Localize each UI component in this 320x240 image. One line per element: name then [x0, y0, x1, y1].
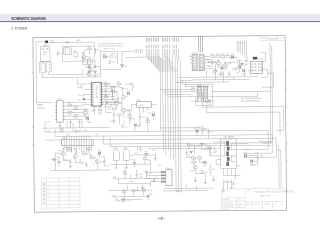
transistor Q31: [190, 166, 197, 173]
resistor R27: [213, 70, 217, 75]
diode D22: [241, 64, 248, 67]
svg-text:CX: CX: [59, 53, 62, 55]
resistor R51: [191, 87, 195, 90]
wire runs below CN02 to T01: [163, 185, 213, 191]
resistor R43: [82, 151, 86, 155]
svg-text:D02: D02: [97, 67, 100, 69]
svg-text:Q11: Q11: [84, 109, 87, 111]
svg-text:MAIN: MAIN: [37, 104, 43, 107]
resistor R38: [104, 94, 108, 97]
svg-text:SCALE: SCALE: [223, 208, 230, 211]
capacitor C59 below T01: [233, 182, 235, 186]
AC inlet plug P01: [44, 40, 48, 43]
svg-text:D04: D04: [124, 66, 127, 68]
svg-text:- 10 -: - 10 -: [157, 217, 165, 221]
resistor R35: [224, 61, 227, 64]
resistor R16: [108, 108, 117, 111]
wire drops from labels B: [162, 49, 169, 63]
capacitor C16: [139, 115, 146, 120]
wire bottom row run: [109, 190, 153, 200]
capacitor C02: [108, 60, 115, 64]
wire riser to note area: [122, 51, 133, 65]
parts below IC01: resistor R41: [98, 109, 102, 115]
svg-text:R15: R15: [74, 117, 77, 119]
capacitor C61: [75, 129, 81, 133]
svg-text:PC01: PC01: [258, 58, 263, 60]
transistor Q22: [224, 63, 228, 70]
resistor R46: [87, 148, 90, 150]
svg-text:96.05: 96.05: [255, 204, 261, 206]
diode D42: [98, 150, 102, 155]
wires CN02 entries: [146, 160, 161, 186]
wire bus right links: [175, 77, 212, 87]
diode D21: [231, 53, 235, 58]
svg-text:D03: D03: [102, 53, 105, 55]
resistor R18: [130, 117, 135, 120]
wire long return route A: [203, 101, 284, 131]
wire right nested loop returns: [243, 130, 276, 157]
svg-text:LF01: LF01: [64, 46, 68, 48]
parts below IC01: capacitor C26: [90, 108, 95, 112]
wire long return route B: [207, 103, 280, 135]
wire CN01 ladder rows: [64, 102, 88, 119]
ground G34: [222, 190, 225, 192]
capacitor C24: [215, 68, 217, 72]
node label MAIN B/D: [37, 104, 44, 110]
transistor Q43: [73, 152, 78, 158]
resistor R59: [122, 189, 126, 192]
svg-text:USE ONLY / B+ 125V: USE ONLY / B+ 125V: [103, 48, 114, 50]
transformer T01: [217, 139, 241, 169]
tiny value labels bottom-mid band: [131, 149, 161, 168]
svg-text:Q31: Q31: [190, 171, 194, 173]
wire loop degaussing route: [62, 46, 94, 61]
svg-text:C62: C62: [95, 134, 98, 136]
svg-text:47u: 47u: [244, 60, 247, 62]
inductor L41: [134, 152, 142, 155]
relay RY01: [88, 57, 93, 64]
svg-text:R16: R16: [108, 108, 111, 110]
fuse FS01: [65, 41, 69, 43]
svg-text:R58: R58: [229, 182, 232, 184]
svg-text:R29: R29: [205, 59, 208, 61]
tiny value labels mid-left: [47, 130, 99, 137]
svg-text:Q45: Q45: [117, 200, 121, 202]
svg-text:CN05: CN05: [197, 84, 202, 86]
capacitor C23: [228, 71, 230, 76]
svg-text:R62: R62: [136, 190, 139, 192]
svg-text:A3: A3: [281, 202, 284, 205]
wire staircase to right: [260, 52, 273, 87]
wire mid horizontal layer1: [42, 126, 276, 140]
diode D13: [152, 112, 156, 117]
transistor Q02: [81, 53, 85, 59]
svg-text:102: 102: [228, 62, 231, 64]
svg-text:LF02: LF02: [39, 61, 43, 63]
resistor R26: [236, 60, 241, 63]
wires pre-IC01: [84, 49, 96, 62]
bridge rectifier D02: [94, 66, 100, 69]
svg-text:5: 5: [48, 199, 50, 201]
svg-text:CHANGE: CHANGE: [268, 38, 277, 41]
svg-text:CN03: CN03: [192, 53, 197, 55]
wire hook arc: [111, 53, 146, 58]
wires IC02 area: [106, 86, 132, 125]
resistor R29: [205, 59, 211, 62]
note NB text: [241, 97, 262, 103]
svg-text:ZD: ZD: [185, 152, 188, 154]
svg-text:R33: R33: [211, 169, 214, 171]
svg-text:C11: C11: [77, 87, 80, 89]
svg-text:Q22: Q22: [224, 69, 228, 71]
svg-text:R22: R22: [216, 54, 219, 56]
zener ZD12: [102, 102, 109, 105]
wire right pair turn: [259, 142, 272, 144]
wire bus mid links: [160, 89, 270, 97]
connector CN03 double column: [192, 52, 204, 70]
wire right vertical pair: [270, 43, 273, 144]
vertical bus line 2: [162, 55, 165, 150]
diode D51: [208, 100, 214, 103]
svg-text:CHECKED: CHECKED: [223, 203, 233, 205]
svg-text:D46: D46: [149, 194, 152, 196]
svg-text:C42: C42: [123, 148, 126, 150]
diode D41: [145, 151, 149, 156]
vertical bus line 6: [172, 54, 175, 160]
ground G42: [125, 164, 128, 169]
resistor R25: [230, 61, 235, 64]
tiny labels band2: [113, 175, 159, 183]
resistor R70 primary side: [187, 143, 191, 146]
wire AC section bus: [100, 51, 121, 69]
transistor Q44: [95, 159, 104, 164]
diode D14: [111, 91, 117, 94]
tiny value labels bottom-left band: [56, 149, 109, 167]
capacitor C12: [69, 120, 71, 124]
svg-text:4.7: 4.7: [92, 164, 95, 166]
left bottom cluster: transistor Q42: [59, 150, 66, 156]
transistor Q45: [117, 198, 125, 202]
sheet border frame: [33, 36, 287, 213]
svg-text:R51: R51: [191, 87, 194, 89]
bridge rectifier D03: [85, 71, 91, 76]
zener ZD41: [133, 163, 136, 165]
wire drops below CN04: [64, 146, 92, 153]
svg-text:R41: R41: [98, 113, 101, 115]
svg-text:C46: C46: [86, 150, 89, 152]
wires bottom-mid extra: [134, 146, 155, 167]
svg-text:R60: R60: [60, 128, 63, 130]
transistor Q01: [89, 67, 93, 71]
svg-text:D13: D13: [152, 112, 155, 114]
wires secondary grounds: [195, 174, 213, 183]
svg-text:DATE: DATE: [247, 203, 253, 206]
svg-text:R54: R54: [201, 126, 204, 128]
capacitor C63 band2: [154, 179, 156, 183]
svg-text:R64: R64: [129, 181, 132, 183]
svg-text:2: 2: [47, 187, 49, 189]
wire mid horizontal layer2: [103, 143, 272, 149]
resistor R36: [104, 82, 108, 86]
wire AC live: [48, 41, 95, 46]
title block bottom row labels: [247, 202, 284, 205]
main board connector CN01: [55, 99, 64, 122]
revision table row marker circles: [43, 183, 45, 203]
parts above T01: capacitor C53: [208, 130, 214, 134]
svg-text:4.7K: 4.7K: [221, 58, 226, 60]
diode D23: [242, 69, 246, 76]
svg-text:C22: C22: [237, 69, 240, 71]
wire left risers to bus: [45, 121, 110, 147]
svg-text:IC02: IC02: [136, 100, 140, 102]
header band: [0, 14, 320, 21]
svg-text:LTB : (B)APPROVED: LTB : (B)APPROVED: [241, 100, 261, 103]
wire drops from labels C: [173, 49, 178, 60]
pin name labels group C: [173, 37, 179, 41]
svg-text:D15: D15: [127, 90, 130, 92]
svg-text:471: 471: [218, 74, 221, 76]
svg-text:R20: R20: [146, 119, 149, 121]
svg-text:C14: C14: [109, 121, 112, 123]
svg-text:TITLE: TITLE: [247, 190, 253, 192]
title block row labels: [223, 198, 242, 211]
diode D46: [147, 194, 152, 198]
resistor R19 below IC02: [128, 114, 132, 118]
diode D31 secondary: [244, 152, 248, 157]
zener ZD70: [185, 151, 193, 154]
connector CN04 row: [62, 138, 94, 146]
resistor R56: [143, 158, 146, 160]
pin labels above CN04: [64, 135, 89, 138]
svg-text:Q44: Q44: [100, 162, 104, 164]
svg-text:T01 SMPS: T01 SMPS: [224, 137, 235, 139]
vertical bus line 1: [159, 57, 162, 131]
svg-text:4: 4: [48, 195, 50, 197]
svg-text:R23: R23: [221, 54, 224, 56]
zener ZD11: [78, 98, 85, 102]
svg-text:D21: D21: [231, 53, 234, 55]
svg-text:R02: R02: [109, 55, 112, 57]
wire right pair drop to title: [276, 146, 281, 188]
capacitor C25: [244, 57, 248, 62]
svg-text:STR-F6654: STR-F6654: [87, 75, 97, 77]
wires band2 links: [125, 169, 146, 179]
wire bridge nodes: [85, 51, 100, 77]
capacitor C19: [122, 87, 128, 91]
wire verticals below CN02 area: [176, 188, 181, 192]
svg-text:1: 1: [47, 184, 49, 186]
svg-text:R59: R59: [122, 189, 125, 191]
svg-text:R24: R24: [226, 54, 229, 56]
diode D03: [102, 53, 106, 58]
revision table: [41, 178, 80, 208]
diode D04: [121, 65, 128, 68]
resistor R20: [146, 119, 150, 123]
svg-text:R17: R17: [113, 114, 116, 116]
svg-text:Q21: Q21: [217, 67, 221, 69]
svg-text:R57: R57: [123, 171, 126, 173]
svg-text:L42: L42: [152, 150, 155, 152]
wires snubber cluster: [103, 84, 133, 107]
ground G44: [85, 163, 88, 167]
resistor R58 below T01: [225, 181, 233, 184]
svg-text:SCHEMATIC DIAGRAM: SCHEMATIC DIAGRAM: [11, 16, 46, 21]
resistor R37: [110, 86, 118, 89]
resistor R17: [113, 114, 122, 117]
svg-text:D33: D33: [203, 165, 206, 167]
svg-text:104: 104: [209, 66, 212, 68]
transistor Q21: [217, 62, 221, 69]
wire filter outputs: [42, 72, 85, 78]
svg-text:STR-S5707: STR-S5707: [95, 85, 97, 100]
svg-text:R39: R39: [117, 82, 120, 84]
svg-text:GOLDSTAR ELECTRONICS: GOLDSTAR ELECTRONICS: [255, 189, 294, 193]
svg-text:D31: D31: [244, 152, 247, 154]
resistor R60: [60, 128, 64, 132]
svg-text:R11: R11: [79, 95, 82, 97]
ground G45: [141, 187, 144, 189]
resistor R44: [90, 155, 94, 159]
wire secondary right: [247, 156, 258, 165]
wire AC neutral left: [43, 43, 49, 63]
capacitor C15: [121, 125, 127, 129]
resistor R15: [74, 115, 78, 120]
pin name labels group A: [146, 38, 159, 42]
capacitor C22: [235, 67, 241, 71]
resistor R62: [132, 190, 140, 193]
capacitor C44: [80, 161, 86, 165]
wire drops from labels D: [237, 45, 246, 56]
svg-text:R61: R61: [66, 134, 69, 136]
svg-text:KA431: KA431: [138, 104, 144, 107]
capacitor C03: [94, 48, 100, 52]
parts above T01: resistor R54: [201, 126, 205, 129]
wires bottom-left extra: [50, 149, 104, 167]
svg-text:D01: D01: [85, 67, 88, 69]
svg-text:Q12: Q12: [112, 100, 116, 102]
wire long verticals from top frame: [199, 36, 203, 52]
ground G41: [115, 164, 118, 169]
svg-text:D45: D45: [148, 172, 151, 174]
capacitor C52: [202, 100, 208, 104]
svg-text:R32: R32: [197, 155, 200, 157]
svg-text:222: 222: [139, 176, 142, 178]
resistor R30: [230, 57, 237, 59]
capacitor C45: [103, 159, 105, 163]
resistor R23: [221, 54, 225, 58]
svg-text:R31: R31: [191, 156, 194, 158]
wires bottom left band: [50, 147, 110, 170]
title block border: [222, 188, 287, 210]
resistor R45: [57, 161, 60, 163]
capacitor C11: [77, 85, 83, 89]
wires left mid risers: [70, 69, 85, 127]
svg-text:1K: 1K: [70, 151, 73, 153]
svg-text:C70: C70: [196, 146, 199, 148]
svg-text:R43: R43: [82, 151, 85, 153]
resistor RX01 column: [74, 50, 78, 59]
wires IC01 left pins: [82, 84, 90, 105]
resistor R33: [209, 168, 214, 171]
ground G43: [69, 164, 72, 168]
capacitor C32: [201, 170, 208, 174]
svg-text:C47: C47: [157, 165, 160, 167]
line filter LF02a: [39, 61, 45, 73]
svg-text:D42: D42: [98, 150, 101, 152]
svg-text:ZD21: ZD21: [238, 63, 243, 65]
resistor R21: [210, 54, 214, 58]
svg-text:473: 473: [84, 130, 87, 132]
wires cluster51: [196, 84, 213, 105]
svg-text:C61: C61: [78, 130, 81, 132]
connector CN02: [161, 168, 172, 186]
AC input filter module box: [40, 46, 50, 61]
diode D45: [145, 172, 151, 175]
svg-text:C50: C50: [112, 195, 115, 197]
ground G33: [212, 180, 215, 182]
ground G31: [194, 181, 197, 183]
diode D15: [127, 90, 131, 95]
connector CN05 double column: [197, 84, 208, 101]
svg-text:C41: C41: [113, 148, 116, 150]
svg-text:APPROVED: APPROVED: [223, 205, 235, 208]
ground bottom of CN01: [58, 122, 61, 128]
wires cluster2: [212, 58, 247, 73]
diode D11: [86, 117, 88, 120]
note text block: [98, 42, 124, 50]
capacitor C21: [211, 60, 217, 65]
IC02 regulator: [131, 100, 156, 113]
pin name labels group B: [162, 38, 170, 42]
svg-text:R25: R25: [232, 62, 235, 64]
svg-text:470u: 470u: [131, 159, 135, 161]
capacitor C13: [78, 120, 80, 124]
capacitor C18: [112, 97, 118, 101]
vertical bus line 7: [175, 56, 176, 188]
bridge rectifier D04: [94, 71, 100, 76]
svg-text:D52: D52: [193, 128, 196, 130]
resistor R02: [109, 55, 113, 58]
wire drops from labels A: [146, 49, 159, 71]
frame zone tick left edge: [31, 55, 33, 163]
resistor R24: [226, 54, 230, 58]
revision table texts: [47, 184, 49, 201]
pin name labels group E: [135, 49, 143, 53]
svg-text:R03: R03: [87, 46, 90, 48]
svg-text:222: 222: [78, 160, 81, 162]
svg-text:R21: R21: [210, 54, 213, 56]
svg-text:C03: C03: [97, 49, 100, 51]
capacitor C43: [69, 159, 71, 164]
zener ZD21: [238, 63, 243, 68]
title block company text: [247, 189, 294, 197]
diode D32 secondary: [250, 159, 254, 166]
svg-text:D22: D22: [244, 64, 247, 66]
svg-text:R26: R26: [238, 60, 241, 62]
capacitor C49: [135, 173, 141, 177]
pin name labels row 2: [146, 44, 177, 48]
line filter box LF01: [64, 46, 72, 54]
svg-text:CN01: CN01: [57, 99, 62, 101]
svg-text:R63: R63: [141, 188, 144, 190]
diode D33: [203, 161, 207, 167]
tiny value labels cluster: [208, 58, 254, 78]
bottom band parts: capacitor C41: [113, 148, 119, 160]
bridge rectifier D01: [85, 66, 91, 69]
svg-text:CHANGE WITHOUT PRIOR NOTICE (: CHANGE WITHOUT PRIOR NOTICE ( SERVICE ): [98, 44, 123, 47]
resistor R12: [67, 103, 71, 106]
svg-text:C02: C02: [112, 62, 115, 64]
